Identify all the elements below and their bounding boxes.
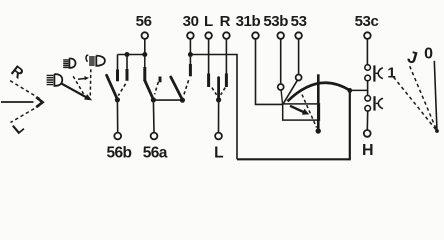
svg-text:30: 30	[183, 13, 199, 30]
svg-text:53b: 53b	[263, 13, 288, 30]
svg-text:H: H	[362, 142, 374, 159]
svg-text:L: L	[214, 144, 223, 161]
svg-text:R: R	[220, 13, 231, 30]
svg-text:56b: 56b	[106, 144, 131, 161]
svg-text:L: L	[204, 13, 213, 30]
svg-text:53: 53	[291, 13, 307, 30]
svg-text:0: 0	[424, 45, 433, 62]
svg-text:1: 1	[387, 65, 395, 82]
svg-text:53c: 53c	[355, 13, 379, 30]
svg-text:56: 56	[136, 13, 152, 30]
svg-text:31b: 31b	[236, 13, 261, 30]
svg-text:56a: 56a	[143, 144, 168, 161]
